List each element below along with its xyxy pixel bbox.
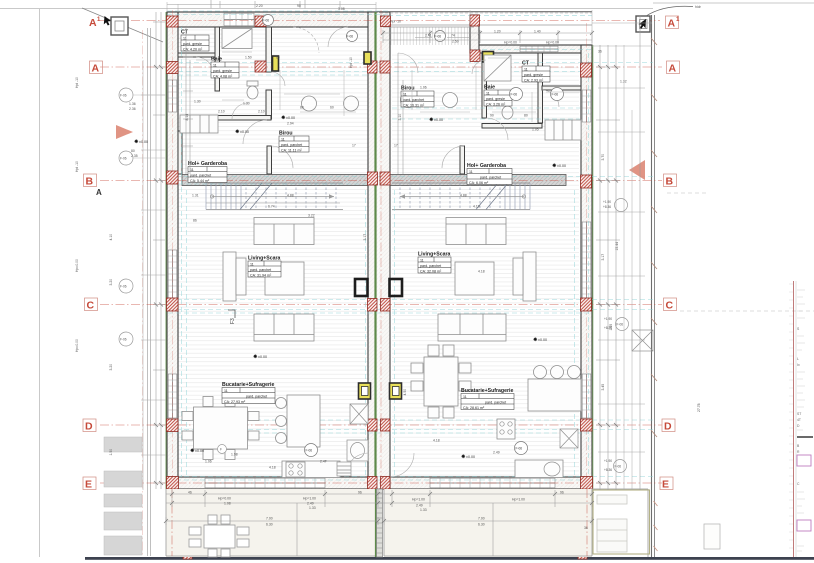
small box outside right fence: [704, 524, 720, 549]
room label: Hol+Garderoba right: [467, 163, 512, 185]
door arcs: [196, 27, 559, 477]
exterior wall: right side: [581, 45, 592, 489]
svg-text:36: 36: [598, 50, 602, 54]
svg-text:1.32: 1.32: [620, 80, 627, 84]
svg-text:F-06: F-06: [263, 19, 270, 23]
room label: Baie left: [211, 57, 239, 79]
svg-text:pard. gresie: pard. gresie: [524, 73, 543, 77]
svg-text:pard. parchet: pard. parchet: [190, 173, 211, 177]
level mark stars: [235, 115, 566, 459]
stair wall right (gray): [390, 175, 566, 186]
column left wall A': [167, 16, 179, 27]
svg-text:2.49: 2.49: [493, 451, 500, 455]
svg-text:F-06: F-06: [511, 93, 518, 97]
svg-text:F-06: F-06: [120, 94, 127, 98]
svg-text:80: 80: [131, 149, 135, 153]
svg-text:Hp=1.00: Hp=1.00: [412, 498, 425, 502]
boundary fence column bottom left: [183, 553, 192, 560]
boundary hatch ticks right: [651, 38, 657, 437]
sheet top border line left part: [0, 8, 653, 10]
right title strip fragment: [789, 281, 813, 557]
sofa 2 right: [438, 314, 506, 341]
column right wall B: [581, 175, 592, 188]
sofa living right: [446, 218, 506, 245]
extra vertical dim chains right yard: [598, 45, 645, 490]
stairs right unit: [392, 183, 530, 210]
axis letter D left: [83, 419, 96, 432]
window: right top wall: [520, 46, 558, 52]
svg-text:1.30: 1.30: [194, 100, 201, 104]
svg-text:CA: 28.61 m²: CA: 28.61 m²: [463, 406, 485, 410]
wall CT bottom right unit: [542, 86, 581, 90]
room label: CT right: [522, 61, 550, 83]
right unit top wall: [474, 45, 592, 53]
kitchen island right: [528, 379, 581, 411]
svg-text:Hp=0.00: Hp=0.00: [218, 497, 231, 501]
tv unit right: [523, 252, 536, 301]
exterior wall: left side: [167, 12, 178, 489]
left margin F-06 circles: [75, 88, 166, 352]
svg-text:Bucatarie+Sufragerie: Bucatarie+Sufragerie: [222, 382, 274, 388]
svg-text:CT: CT: [181, 30, 189, 36]
svg-text:36: 36: [584, 526, 588, 530]
svg-text:3.20: 3.20: [109, 364, 113, 371]
terrace right slab outline: [384, 489, 592, 556]
tv unit left: [223, 252, 236, 301]
exterior wall: bottom (shared both units): [167, 477, 592, 489]
wall Birou right lower: [460, 146, 465, 174]
svg-text:2.20: 2.20: [256, 4, 263, 8]
wall CT/Baie divider: [215, 27, 220, 91]
wall Baie bottom: [216, 116, 271, 121]
svg-text:11: 11: [524, 67, 528, 71]
top dim chain texts left: [167, 2, 592, 45]
axis letter E right: [660, 477, 673, 490]
svg-text:3.08: 3.08: [338, 7, 345, 11]
svg-text:±0.00: ±0.00: [557, 164, 566, 168]
cooktop block right: [497, 419, 515, 439]
svg-text:CA: 3.26 m²: CA: 3.26 m²: [486, 102, 506, 106]
axis letter A right: [667, 61, 680, 74]
furniture left unit: [180, 29, 359, 478]
svg-text:27.78: 27.78: [697, 403, 701, 412]
svg-text:1.33: 1.33: [309, 506, 316, 510]
green insulation left wall outer: [165, 12, 167, 489]
svg-text:Hp=0.00: Hp=0.00: [546, 41, 559, 45]
svg-text:4.10: 4.10: [109, 234, 113, 241]
svg-text:pard. gresie: pard. gresie: [486, 97, 505, 101]
svg-text:4.88: 4.88: [460, 194, 467, 198]
cyan guide dashed lines: [167, 11, 653, 480]
svg-text:4.18: 4.18: [478, 270, 485, 274]
svg-text:11: 11: [224, 389, 228, 393]
leader diagonal top-left: [82, 8, 163, 42]
entry door quarter circles at top porch: [293, 27, 319, 53]
column left wall C: [167, 298, 179, 311]
porch vertical hatch right: [384, 27, 470, 45]
svg-text:80: 80: [524, 114, 528, 118]
stove left: [286, 462, 305, 477]
svg-text:CA: 27.93 m²: CA: 27.93 m²: [224, 400, 246, 404]
axis letter E left: [83, 477, 96, 490]
axis letter D right: [662, 419, 675, 432]
svg-text:1.36: 1.36: [129, 102, 136, 106]
svg-text:1.08: 1.08: [224, 502, 231, 506]
svg-text:±0.00: ±0.00: [195, 449, 204, 453]
svg-text:1.06: 1.06: [205, 460, 212, 464]
sink cabinet left: [347, 440, 368, 461]
svg-text:17: 17: [394, 144, 398, 148]
svg-text:D: D: [85, 421, 93, 433]
svg-text:6.30: 6.30: [478, 523, 485, 527]
terrace steps right of right unit: [592, 489, 648, 557]
interior walls left unit: [178, 27, 272, 174]
svg-text:pard. parchet: pard. parchet: [250, 268, 271, 272]
svg-text:11: 11: [281, 137, 285, 141]
window: left wall living: [168, 250, 177, 302]
section marker left: [104, 16, 128, 35]
svg-text:3.45: 3.45: [601, 384, 605, 391]
svg-text:+1.90: +1.90: [603, 200, 611, 204]
wall Baie left (right unit): [482, 53, 487, 118]
svg-text:CA: 16.31 m²: CA: 16.31 m²: [403, 103, 425, 107]
svg-text:pard. gresie: pard. gresie: [213, 69, 232, 73]
svg-text:2.10: 2.10: [258, 110, 265, 114]
svg-text:90: 90: [490, 114, 494, 118]
wall axis verticals: [380, 10, 382, 489]
axis letter B left: [84, 174, 97, 187]
column interior A right unit: [494, 62, 504, 74]
room label: Birou right: [401, 86, 434, 108]
svg-text:pard. parchet: pard. parchet: [485, 400, 506, 404]
wardrobe garderoba right: [545, 120, 581, 140]
column top wall mid: [255, 16, 266, 27]
sliding door bottom left unit: [205, 478, 325, 488]
svg-text:Hp=0.00: Hp=0.00: [75, 339, 79, 352]
kitchen counter right: [515, 460, 563, 478]
svg-text:2.41: 2.41: [425, 34, 432, 38]
svg-text:C: C: [87, 300, 95, 312]
yellow chimney boxes: [273, 52, 494, 400]
room label: Baie right: [484, 85, 512, 107]
svg-text:Hpl -10: Hpl -10: [75, 77, 79, 88]
svg-text:3.17: 3.17: [601, 254, 605, 261]
lavoar circles birou left: [302, 96, 317, 111]
room label: Living+Scara left: [248, 256, 281, 278]
wall Birou left lower: [267, 146, 272, 174]
F circle left kitchen: [218, 445, 227, 454]
svg-text:4.18: 4.18: [269, 466, 276, 470]
svg-text:B: B: [666, 176, 674, 188]
axis letter C right: [664, 298, 677, 311]
sliding door bottom right unit: [430, 478, 555, 488]
svg-text:1.40: 1.40: [534, 30, 541, 34]
right boundary line with hatch ticks: [652, 15, 655, 557]
column right wall A: [581, 63, 592, 77]
shower left baie: [222, 29, 252, 49]
axis letter A left: [90, 61, 103, 74]
svg-text:+8.36: +8.36: [603, 205, 611, 209]
svg-text:7.00: 7.00: [478, 517, 485, 521]
svg-text:74: 74: [451, 34, 455, 38]
column right unit top corner: [470, 15, 480, 26]
window: top wall above shower: [224, 13, 254, 26]
svg-text:11: 11: [469, 170, 473, 174]
svg-text:pard. parchet: pard. parchet: [480, 175, 501, 179]
column party wall top: [381, 16, 391, 27]
svg-text:1.05: 1.05: [532, 128, 539, 132]
svg-text:D: D: [664, 421, 672, 433]
svg-text:±0.00: ±0.00: [434, 118, 443, 122]
bar stools right: [534, 366, 547, 379]
svg-text:Hp=1.00: Hp=1.00: [512, 498, 525, 502]
sofa living left: [254, 218, 314, 245]
svg-text:3.70: 3.70: [601, 154, 605, 161]
svg-text:±0.00: ±0.00: [240, 130, 249, 134]
svg-text:1.98: 1.98: [231, 453, 238, 457]
svg-text:60: 60: [330, 106, 334, 110]
F-06 symbols: [263, 15, 564, 457]
svg-text:17: 17: [352, 144, 356, 148]
svg-text:6.30: 6.30: [266, 523, 273, 527]
short tick above top wall: [211, 0, 305, 9]
svg-text:Birou: Birou: [279, 131, 293, 137]
neighbor dashed stubs: [667, 193, 814, 311]
room label: Birou left: [279, 131, 309, 153]
extra level star left kitchen: [190, 448, 204, 453]
dining table right: [424, 357, 458, 406]
svg-text:F-06: F-06: [615, 465, 622, 469]
svg-text:CA: 32.08 m²: CA: 32.08 m²: [420, 269, 442, 273]
svg-text:Hol+ Garderoba: Hol+ Garderoba: [467, 163, 506, 169]
column left wall B: [167, 171, 179, 184]
exterior wall: left unit top: [167, 12, 592, 489]
floor hatch left unit interior: [178, 27, 368, 477]
svg-text:1.50: 1.50: [245, 56, 252, 60]
svg-text:4T: 4T: [797, 418, 801, 422]
svg-text:Bucatarie+Sufragerie: Bucatarie+Sufragerie: [461, 388, 513, 394]
svg-text:3.20: 3.20: [109, 279, 113, 286]
party wall: [368, 12, 390, 489]
svg-text:CA: 2.93 m²: CA: 2.93 m²: [524, 78, 544, 82]
svg-text:46: 46: [188, 491, 192, 495]
red axis dash-dot lines: [100, 10, 662, 556]
column left wall D: [167, 419, 179, 432]
svg-text:4.50: 4.50: [403, 389, 407, 396]
svg-text:ST: ST: [797, 412, 801, 416]
sheet left border line: [39, 9, 41, 558]
svg-text:11: 11: [486, 91, 490, 95]
room label: Bucatarie right: [461, 388, 514, 410]
column right wall E: [581, 477, 593, 490]
svg-text:pard. parchet: pard. parchet: [281, 143, 302, 147]
svg-text:3.22: 3.22: [308, 214, 315, 218]
kitchen island left: [287, 395, 320, 447]
svg-text:+8.36: +8.36: [604, 326, 612, 330]
axis letter A' left: [83, 16, 680, 491]
shower right baie: [484, 55, 511, 81]
svg-text:Hp=1.00: Hp=1.00: [303, 497, 316, 501]
svg-text:pard. parchet: pard. parchet: [246, 394, 267, 398]
window: left wall kitchen: [168, 374, 177, 418]
bottom dark sheet edge: [85, 557, 814, 560]
svg-text:CT: CT: [522, 61, 530, 67]
gray ground blocks left margin: [104, 437, 142, 555]
svg-text:Living+Scara: Living+Scara: [418, 252, 451, 258]
svg-text:Living+Scara: Living+Scara: [248, 256, 281, 262]
dimension texts: [75, 4, 701, 527]
interior vertical chain left unit: [186, 27, 190, 174]
svg-text:Hpl -10: Hpl -10: [75, 161, 79, 172]
column left wall A: [167, 62, 179, 74]
svg-text:F: F: [220, 448, 222, 452]
svg-text:Baie: Baie: [211, 57, 222, 63]
svg-text:A: A: [92, 63, 100, 75]
svg-text:±0.00: ±0.00: [258, 355, 267, 359]
svg-text:60: 60: [276, 56, 280, 60]
black fireplace flues at C: [355, 279, 402, 296]
svg-text:F-06: F-06: [120, 285, 127, 289]
svg-text:F-06: F-06: [347, 35, 354, 39]
svg-text:1.06: 1.06: [420, 86, 427, 90]
wall Baie right: [266, 27, 272, 72]
left boundary fence double line: [148, 28, 151, 556]
svg-text:11: 11: [213, 63, 217, 67]
svg-text:hidr: hidr: [695, 5, 702, 9]
svg-text:CA: 4.08 m²: CA: 4.08 m²: [213, 74, 233, 78]
svg-text:6.74: 6.74: [268, 205, 275, 209]
wardrobe garderoba left: [180, 115, 218, 133]
axis letter C left: [85, 298, 98, 311]
svg-text:F-06: F-06: [516, 447, 523, 451]
svg-text:80: 80: [300, 106, 304, 110]
terrace left slab outline: [166, 489, 648, 557]
svg-text:2.49: 2.49: [307, 502, 314, 506]
svg-text:CA: 11.11 m²: CA: 11.11 m²: [281, 148, 302, 152]
svg-text:Hpl -10: Hpl -10: [349, 57, 353, 68]
svg-text:2.36: 2.36: [129, 107, 136, 111]
terrace axis dashes redrawn: [172, 489, 587, 557]
svg-text:±0.00: ±0.00: [286, 116, 295, 120]
svg-text:+1.90: +1.90: [604, 459, 612, 463]
dimension chains: horizontal above right unit: [153, 1, 640, 556]
svg-text:11: 11: [190, 168, 194, 172]
column right wall D: [581, 419, 593, 431]
furniture right unit: [401, 55, 582, 478]
wall Baie bottom right unit: [482, 124, 542, 129]
svg-text:1.20: 1.20: [494, 30, 501, 34]
level markers right yard: [603, 199, 629, 473]
sofa 2 left: [254, 314, 314, 341]
X brace right wall C-D: [632, 330, 653, 351]
right unit top stub wall: [470, 15, 479, 53]
room label: CT left: [181, 30, 209, 52]
axis letter A' right: [666, 16, 679, 29]
sink right: [544, 462, 560, 476]
svg-text:Hpl -10: Hpl -10: [390, 20, 401, 24]
svg-text:±0.00: ±0.00: [466, 455, 475, 459]
svg-text:7.00: 7.00: [266, 517, 273, 521]
svg-text:2.94: 2.94: [287, 122, 294, 126]
column interior A (Baie corner): [255, 61, 266, 72]
pantry X cabinet right: [560, 429, 578, 448]
dimension chain top left unit above wall: [167, 1, 376, 8]
svg-text:96: 96: [560, 491, 564, 495]
svg-text:1.50: 1.50: [109, 449, 113, 456]
section marker right: [636, 5, 702, 32]
svg-text:±0.00: ±0.00: [538, 338, 547, 342]
svg-text:A: A: [669, 63, 677, 75]
toilet right: [502, 106, 513, 119]
fence strip below party wall: [377, 489, 383, 557]
dining table left: [194, 407, 248, 449]
coffee table left: [265, 262, 304, 295]
svg-text:+1.90: +1.90: [604, 317, 612, 321]
svg-text:A: A: [668, 18, 676, 30]
svg-text:1.30: 1.30: [243, 102, 250, 106]
svg-text:90: 90: [297, 4, 301, 8]
svg-text:F3: F3: [230, 318, 236, 324]
coffee table right: [455, 262, 494, 295]
svg-text:F-06: F-06: [120, 338, 127, 342]
interior walls right unit: [460, 53, 581, 174]
outdoor table left: [189, 515, 249, 557]
pantry X cabinet left: [350, 404, 368, 424]
svg-text:2.49: 2.49: [416, 504, 423, 508]
svg-text:CA: 6.06 m²: CA: 6.06 m²: [469, 181, 489, 185]
green insulation line party wall: [374, 12, 376, 557]
salmon triangle marker right: [629, 160, 645, 180]
canopy line over right porch: [376, 11, 592, 13]
svg-text:4.88: 4.88: [287, 194, 294, 198]
svg-text:E: E: [662, 479, 669, 491]
dishwasher left: [337, 462, 351, 476]
svg-text:11: 11: [420, 258, 424, 262]
svg-text:CA: 5.44 m²: CA: 5.44 m²: [190, 179, 210, 183]
toilet left: [247, 81, 258, 86]
column party wall B (pair): [368, 172, 378, 185]
column left wall E: [167, 477, 179, 490]
svg-text:CA: 31.94 m²: CA: 31.94 m²: [250, 273, 272, 277]
column right wall C: [581, 298, 592, 311]
svg-text:F-06: F-06: [120, 157, 127, 161]
svg-text:A: A: [96, 188, 102, 197]
svg-text:F-06: F-06: [552, 93, 559, 97]
interior room dim ticks top rooms: [196, 52, 580, 122]
svg-text:11: 11: [463, 395, 467, 399]
bar stools left: [276, 398, 287, 409]
svg-text:Hp=0.00: Hp=0.00: [504, 41, 517, 45]
room label: Bucatarie left: [222, 382, 275, 404]
svg-text:4.19: 4.19: [473, 205, 480, 209]
svg-text:3.17: 3.17: [363, 234, 367, 241]
wall Baie/CT divider: [538, 53, 543, 123]
svg-text:15.44: 15.44: [615, 242, 619, 251]
columns party wall A (pair): [368, 61, 378, 73]
boundary fence column bottom right: [578, 553, 587, 560]
vertical chains right of right wall: [600, 15, 640, 490]
lavoar circles birou right: [401, 93, 416, 108]
sheet top border line right part: [653, 2, 814, 4]
svg-text:1.33: 1.33: [420, 508, 427, 512]
svg-text:Hp=0.00: Hp=0.00: [75, 259, 79, 272]
column party wall C: [368, 299, 378, 312]
horizontal chains below bottom wall: [166, 494, 592, 503]
svg-text:3.10: 3.10: [398, 114, 402, 121]
extra vertical dim chains left yard: [141, 60, 166, 490]
star near triangle: [134, 139, 148, 144]
svg-text:±0.00: ±0.00: [139, 140, 148, 144]
